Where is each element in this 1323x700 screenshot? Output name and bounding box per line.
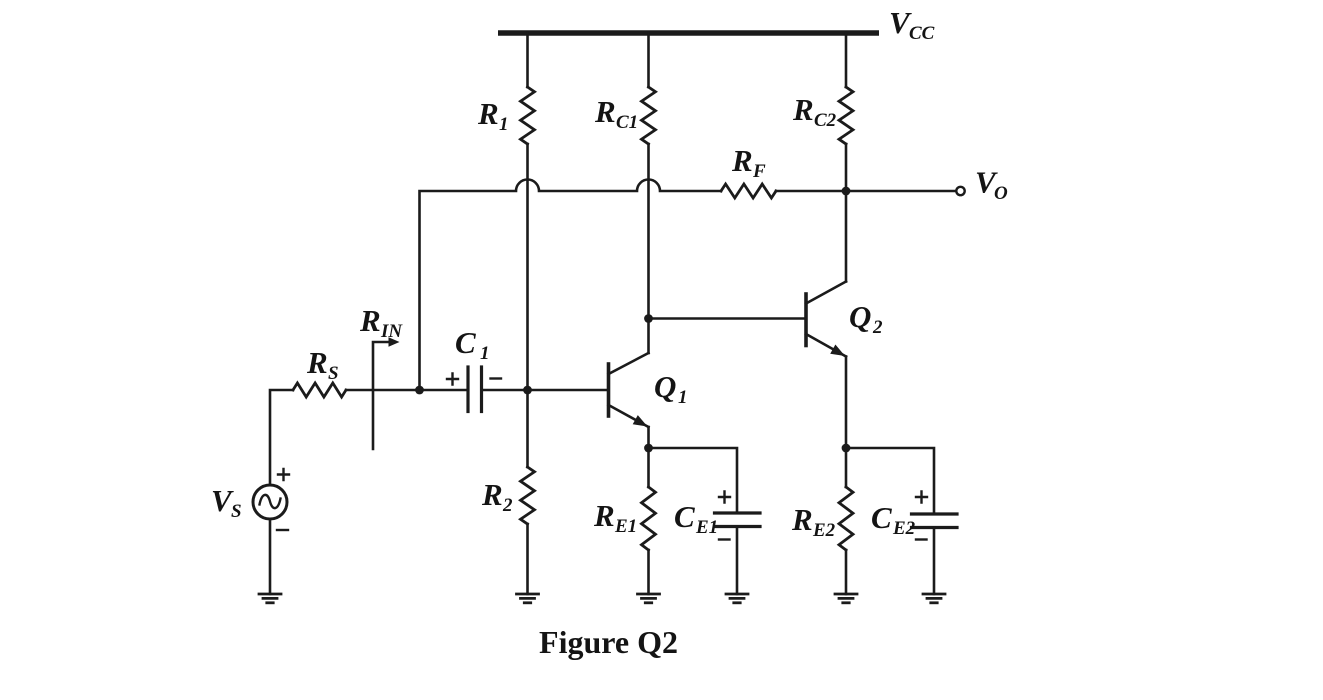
label C1 xyxy=(455,325,490,364)
svg-text:C: C xyxy=(455,325,476,360)
svg-text:S: S xyxy=(231,501,242,522)
node RIN looking-in indicator (line with arrow) xyxy=(373,342,391,449)
polarity + of VS xyxy=(278,469,289,480)
output terminal Vo (open circle) xyxy=(956,187,964,195)
wire: feedback, input node up then right, hopping over R1 and RC1 columns xyxy=(420,180,722,391)
junction: input node (feedback tap) xyxy=(415,386,424,395)
svg-text:R: R xyxy=(791,502,813,537)
svg-text:R: R xyxy=(594,94,616,129)
svg-text:C: C xyxy=(674,499,695,534)
junction: base node (R1/R2/C1/Q1 base) xyxy=(523,386,532,395)
svg-text:CC: CC xyxy=(909,23,935,44)
polarity - of VS xyxy=(277,529,288,531)
label RS xyxy=(306,345,339,384)
svg-text:C2: C2 xyxy=(814,110,837,131)
wire: C1 right plate to Q1 base xyxy=(483,389,607,392)
junction: Q2 emitter node (RE2/CE2) xyxy=(842,444,851,453)
resistor R1 xyxy=(521,87,535,144)
wire: RC1 bottom down to Q1 collector node (passes under feedback hop) xyxy=(647,144,650,319)
polarity + of CE1 xyxy=(719,492,730,503)
label RE1 xyxy=(593,498,637,537)
svg-text:Figure Q2: Figure Q2 xyxy=(539,624,678,660)
wire: Q1 emitter down to emitter node xyxy=(647,427,650,448)
svg-text:E2: E2 xyxy=(812,520,836,541)
wire: emitter node down to RE1 top xyxy=(647,448,650,487)
wire: VCC rail down to RC2 top xyxy=(845,33,848,87)
polarity - of CE1 xyxy=(719,538,730,540)
svg-text:R: R xyxy=(593,498,615,533)
svg-text:1: 1 xyxy=(480,343,490,364)
ground (CE2) xyxy=(923,593,945,596)
wire: base node down to R2 top xyxy=(526,390,529,467)
label Q2 xyxy=(849,299,883,338)
resistor RC2 xyxy=(839,87,853,144)
junction: Q1 collector / Q2 base node xyxy=(644,314,653,323)
wire: RF right side to output node and on to Vo terminal xyxy=(776,190,956,193)
svg-text:E1: E1 xyxy=(695,517,718,538)
ground (CE1) xyxy=(726,593,748,596)
ground (RE2) xyxy=(835,593,857,596)
svg-text:R: R xyxy=(359,303,381,338)
caption: Figure Q2 xyxy=(539,624,678,660)
wire: R1 bottom down to base node (passes under feedback hop) xyxy=(526,144,529,390)
capacitor CE1 (top plate) xyxy=(715,511,761,514)
wire: VCC rail down to RC1 top xyxy=(647,33,650,87)
capacitor CE2 (top plate) xyxy=(912,512,958,515)
svg-text:E2: E2 xyxy=(892,518,916,539)
wire: emitter node right to CE2 top xyxy=(846,448,934,514)
label CE2 xyxy=(871,500,916,539)
svg-text:S: S xyxy=(328,363,339,384)
capacitor C1 (left plate) xyxy=(466,367,469,412)
wire: emitter node down to RE2 top xyxy=(845,448,848,487)
svg-text:1: 1 xyxy=(499,114,509,135)
label RF xyxy=(731,143,766,182)
svg-text:R: R xyxy=(792,92,814,127)
label VS xyxy=(211,483,242,522)
polarity - of CE2 xyxy=(916,538,927,540)
svg-text:C1: C1 xyxy=(616,112,638,133)
wire: RE2 bottom to ground xyxy=(845,550,848,594)
junction: output node (RC2/RF/Vo/Q2 collector) xyxy=(842,187,851,196)
wire: CE1 bottom plate to ground xyxy=(736,527,739,595)
svg-text:R: R xyxy=(481,477,503,512)
wire: RS to C1 left plate xyxy=(346,389,467,392)
polarity + of CE2 xyxy=(916,492,927,503)
polarity - of C1 xyxy=(491,377,502,379)
capacitor C1 (right plate) xyxy=(480,367,483,412)
resistor RF xyxy=(721,184,776,198)
svg-text:1: 1 xyxy=(678,387,688,408)
power rail VCC xyxy=(498,30,879,36)
label CE1 xyxy=(674,499,718,538)
svg-text:R: R xyxy=(731,143,753,178)
label RE2 xyxy=(791,502,836,541)
transistor Q2 xyxy=(806,282,846,357)
wire: output node down to Q2 collector xyxy=(845,191,848,282)
polarity + of C1 xyxy=(447,374,458,385)
svg-text:O: O xyxy=(994,183,1008,204)
source VS (sine) xyxy=(253,485,287,519)
junction: Q1 emitter node (RE1/CE1) xyxy=(644,444,653,453)
label R2 xyxy=(481,477,513,516)
transistor Q1 xyxy=(609,353,649,427)
svg-text:F: F xyxy=(752,161,766,182)
resistor RS xyxy=(293,383,346,397)
resistor R2 xyxy=(521,467,535,524)
label R1 xyxy=(477,96,509,135)
capacitor CE1 (bottom plate) xyxy=(715,525,761,528)
wire: Q2 emitter down to emitter node xyxy=(845,357,848,449)
resistor RE1 xyxy=(642,487,656,550)
capacitor CE2 (bottom plate) xyxy=(912,526,958,529)
ground (VS) xyxy=(259,593,281,596)
svg-text:R: R xyxy=(306,345,328,380)
wire: VS bottom to ground xyxy=(269,519,272,594)
resistor RC1 xyxy=(642,87,656,144)
svg-text:IN: IN xyxy=(380,321,403,342)
wire: R2 bottom to ground xyxy=(526,524,529,594)
svg-text:Q: Q xyxy=(654,369,676,404)
svg-text:2: 2 xyxy=(872,317,883,338)
svg-text:E1: E1 xyxy=(614,516,637,537)
wire: collector node down to Q1 collector xyxy=(647,319,650,354)
svg-text:Q: Q xyxy=(849,299,871,334)
wire: RC2 bottom down to output node xyxy=(845,144,848,191)
ground (R2) xyxy=(517,593,539,596)
label VCC xyxy=(889,5,935,44)
wire: VCC rail down to R1 top xyxy=(526,33,529,87)
svg-text:2: 2 xyxy=(502,495,513,516)
wire: Q1 collector node to Q2 base xyxy=(649,317,805,320)
label Vo xyxy=(975,165,1008,205)
resistor RE2 xyxy=(839,487,853,550)
label RC2 xyxy=(792,92,837,131)
wire: RE1 bottom to ground xyxy=(647,550,650,594)
svg-text:R: R xyxy=(477,96,499,131)
label RIN xyxy=(359,303,403,342)
wire: VS top up to input wire corner xyxy=(270,390,293,485)
label RC1 xyxy=(594,94,638,133)
label Q1 xyxy=(654,369,688,408)
wire: emitter node right to CE1 top xyxy=(649,448,738,513)
wire: CE2 bottom plate to ground xyxy=(933,528,936,595)
ground (RE1) xyxy=(638,593,660,596)
svg-text:C: C xyxy=(871,500,892,535)
